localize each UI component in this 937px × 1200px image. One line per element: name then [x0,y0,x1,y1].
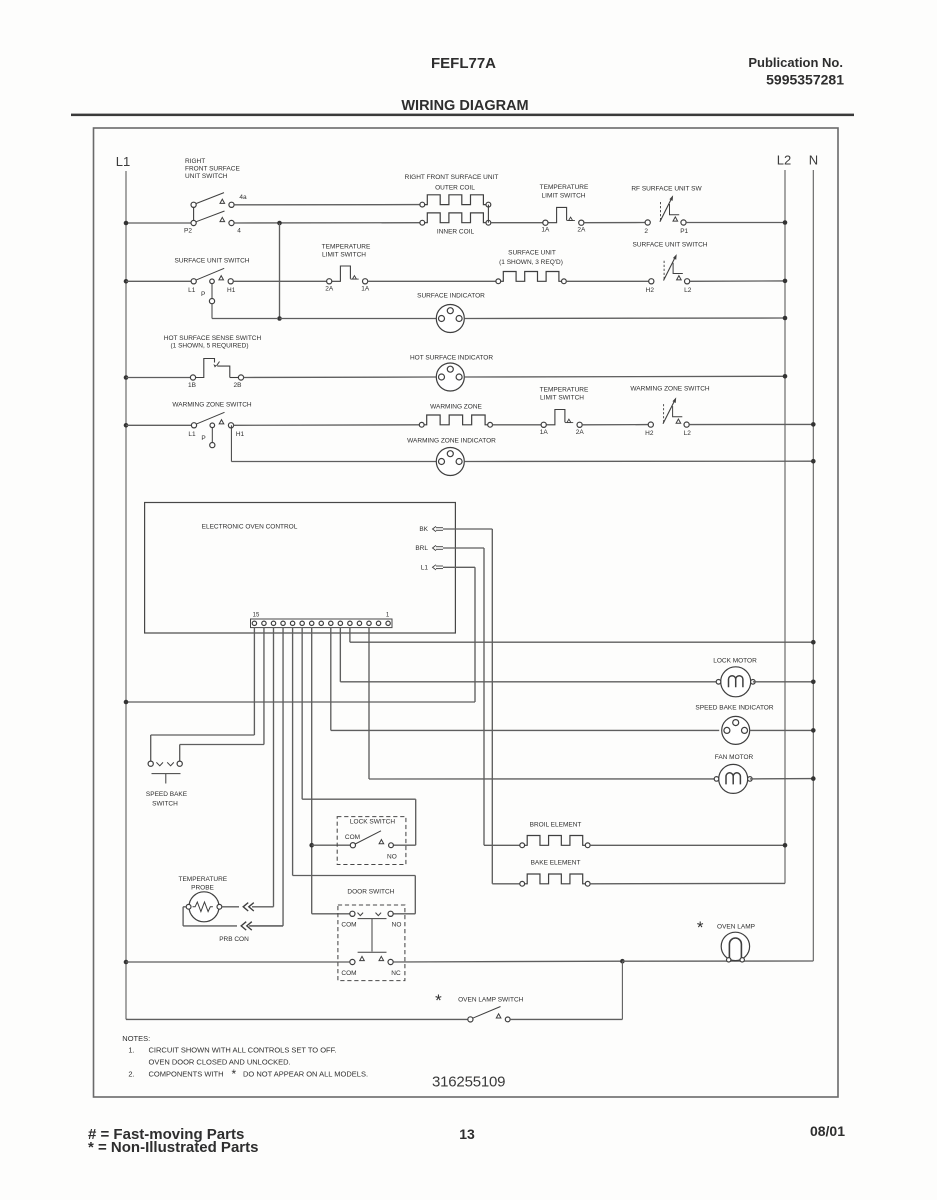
heater outer coil [420,202,425,207]
junction pilot branch [277,316,282,321]
svg-text:FRONT SURFACE: FRONT SURFACE [185,166,240,173]
svg-text:(1 SHOWN, 5 REQUIRED): (1 SHOWN, 5 REQUIRED) [170,343,248,350]
switch hot surface sense [190,375,195,380]
lamp oven lamp [721,932,749,960]
svg-text:NOTES:: NOTES: [122,1034,150,1043]
svg-text:1A: 1A [361,285,370,292]
wire fan motor to N [750,778,813,780]
svg-text:INNER COIL: INNER COIL [437,229,475,236]
wire indicator branch down [230,425,232,461]
svg-text:WIRING DIAGRAM: WIRING DIAGRAM [401,98,528,114]
wire branch to warming indicator [231,461,436,463]
junction pin5 N [811,640,816,645]
svg-text:COMPONENTS WITH: COMPONENTS WITH [149,1070,224,1079]
junction L1 row3 [124,375,129,380]
switch door lower COM-NC [350,959,355,964]
svg-text:316255109: 316255109 [432,1074,505,1091]
wire pilot to surface indicator [280,318,437,320]
wire 2B to hot surface indicator [243,376,436,379]
svg-text:LOCK SWITCH: LOCK SWITCH [350,819,395,826]
wire pin9 to door switch COM [311,628,313,914]
svg-text:DO NOT APPEAR ON ALL MODELS.: DO NOT APPEAR ON ALL MODELS. [243,1070,368,1079]
door switch actuator tee [358,918,387,920]
svg-text:BROIL ELEMENT: BROIL ELEMENT [530,822,582,829]
svg-text:SURFACE UNIT: SURFACE UNIT [508,250,556,257]
svg-text:LIMIT SWITCH: LIMIT SWITCH [322,252,366,259]
door switch enclosure [338,905,405,981]
svg-text:CIRCUIT SHOWN WITH ALL CONTROL: CIRCUIT SHOWN WITH ALL CONTROLS SET TO O… [149,1046,337,1055]
svg-text:SURFACE INDICATOR: SURFACE INDICATOR [417,293,485,300]
svg-text:NO: NO [392,922,402,929]
svg-text:PRB CON: PRB CON [219,936,249,943]
wire coil to H2 [566,280,649,282]
wire warming coil to 1A [493,424,542,426]
svg-text:SPEED BAKE: SPEED BAKE [146,791,188,798]
wire lamp branch down [621,961,623,1019]
wire eoc L1 to bus L1 [443,566,475,568]
svg-text:L1: L1 [116,154,130,169]
junction eoc L1 at bus [124,700,129,705]
svg-text:LIMIT SWITCH: LIMIT SWITCH [540,395,584,402]
svg-text:N: N [809,153,818,168]
svg-text:15: 15 [253,613,260,619]
svg-text:1.: 1. [128,1046,134,1055]
wire 1A to surface unit coil [368,280,496,282]
junction L1 row2 [124,279,129,284]
chevrons probe lead [243,903,248,911]
svg-text:OVEN LAMP: OVEN LAMP [717,924,755,931]
svg-text:P: P [201,435,205,442]
heater bake element [520,881,525,886]
lamp surface indicator [436,305,464,333]
wire probe right lead [222,906,239,908]
svg-text:SURFACE UNIT SWITCH: SURFACE UNIT SWITCH [175,258,250,265]
junction lock motor N [811,680,816,685]
svg-text:HOT SURFACE INDICATOR: HOT SURFACE INDICATOR [410,355,493,362]
svg-text:L2: L2 [684,287,692,294]
junction row4b N [811,459,816,464]
svg-text:H1: H1 [236,431,245,438]
switch warming zone (right) [648,422,653,427]
wire lamp switch row left [126,1018,468,1020]
wire 2A to RF switch [584,222,645,224]
svg-text:COM: COM [345,834,360,841]
svg-text:ELECTRONIC OVEN CONTROL: ELECTRONIC OVEN CONTROL [202,524,298,531]
wire L2term to L2 bus [690,280,785,282]
lamp warming zone indicator [436,448,464,476]
svg-text:RF SURFACE UNIT SW: RF SURFACE UNIT SW [631,186,702,193]
junction lamp row branch [620,959,625,964]
wire broil to L2 [590,844,785,846]
svg-text:BAKE ELEMENT: BAKE ELEMENT [531,860,581,867]
eoc terminal BRL arrow [436,546,443,548]
switch right front surface unit, upper pole 4a [191,202,196,207]
svg-text:* = Non-Illustrated Parts: * = Non-Illustrated Parts [88,1139,258,1156]
svg-text:TEMPERATURE: TEMPERATURE [322,244,371,251]
wire hot surface indicator to L2 [464,375,785,378]
wire bake to L2 end [590,882,785,884]
wire inner coil to 1A [491,222,543,224]
wire pilot branch down-right [211,304,213,319]
svg-text:TEMPERATURE: TEMPERATURE [540,184,589,191]
wire H1 to warming coil [233,424,419,427]
junction row1 L2 [783,220,788,225]
svg-text:4a: 4a [239,194,247,201]
svg-text:2B: 2B [234,382,242,389]
junction L1 door bottom [124,960,129,965]
svg-text:TEMPERATURE: TEMPERATURE [178,876,227,883]
wire pin10 to lock switch NO [301,628,303,800]
svg-text:COM: COM [341,970,356,977]
junction speed bake N [811,728,816,733]
svg-text:*: * [435,991,442,1010]
svg-text:1A: 1A [541,227,550,234]
svg-text:OUTER COIL: OUTER COIL [435,185,475,192]
resistor temperature probe [189,892,219,922]
wire row3 L1 to 1B [126,377,191,379]
wire speed bake indicator to N [750,729,814,731]
svg-text:L2: L2 [684,430,692,437]
svg-text:4: 4 [237,228,241,235]
wire pin14 to speed bake switch [263,628,265,745]
switch lock [350,843,355,848]
wire pin13 to probe [273,628,275,907]
temperature limit switch row4 [541,422,546,427]
svg-text:5995357281: 5995357281 [766,72,844,88]
eoc connector strip [251,619,393,628]
svg-text:P: P [201,291,205,298]
svg-text:COM: COM [341,922,356,929]
wire branch down to pilot row [279,223,281,319]
svg-text:(1 SHOWN, 3 REQ'D): (1 SHOWN, 3 REQ'D) [499,259,563,266]
wire pin3 to fan motor [368,628,370,779]
svg-text:2: 2 [644,228,648,235]
svg-text:LOCK MOTOR: LOCK MOTOR [713,658,757,665]
svg-text:WARMING ZONE SWITCH: WARMING ZONE SWITCH [630,386,710,393]
eoc terminal BK arrow [436,527,443,529]
wire 4a to outer coil [234,204,420,206]
wire 2A to warming switch [582,424,648,426]
svg-text:*: * [232,1067,237,1081]
diagram border frame [94,128,839,1097]
svg-text:SWITCH: SWITCH [152,801,178,808]
wire row4 L1 to switch [126,424,191,426]
wire pin15 to speed bake switch [253,628,255,735]
svg-text:L1: L1 [188,431,196,438]
wire lamp switch row right [510,1018,622,1020]
switch warming zone (left) [191,423,196,428]
temperature limit switch row1 [543,220,548,225]
svg-text:1B: 1B [188,382,196,389]
chevrons probe return [241,922,246,930]
junction row2 L2 [783,279,788,284]
switch oven lamp [468,1017,473,1022]
svg-text:*: * [697,918,704,937]
svg-text:L1: L1 [188,287,196,294]
heater inner coil [420,220,425,225]
svg-text:OVEN DOOR CLOSED AND UNLOCKED.: OVEN DOOR CLOSED AND UNLOCKED. [149,1058,291,1067]
bus L1 vertical wire [125,171,127,1019]
wire pin12 to probe return [282,628,284,926]
wire lock motor to N [753,681,813,683]
svg-text:H2: H2 [645,430,654,437]
svg-text:2A: 2A [325,285,334,292]
switch surface unit (left) [191,279,196,284]
svg-text:TEMPERATURE: TEMPERATURE [540,387,589,394]
wire warming indicator to N [464,460,813,462]
motor fan [719,764,748,793]
junction pin9 lock switch COM [309,843,314,848]
svg-text:DOOR SWITCH: DOOR SWITCH [347,889,394,896]
svg-text:2A: 2A [577,227,586,234]
electronic oven control box [145,503,456,634]
svg-text:Publication No.: Publication No. [748,55,843,70]
svg-text:H1: H1 [227,287,236,294]
wire BRL to broil element [443,547,484,549]
switch rf surface unit [645,220,650,225]
switch door upper COM-NO [350,911,355,916]
wire 4 to inner coil [234,222,420,224]
wire lamp row to N corner [622,960,813,962]
switch right front surface unit, lower pole P2-4 [191,220,196,225]
svg-text:SURFACE UNIT SWITCH: SURFACE UNIT SWITCH [633,242,708,249]
lamp speed bake indicator [722,716,750,744]
svg-text:WARMING ZONE INDICATOR: WARMING ZONE INDICATOR [407,438,496,445]
svg-text:HOT SURFACE SENSE SWITCH: HOT SURFACE SENSE SWITCH [164,335,262,342]
svg-text:LIMIT SWITCH: LIMIT SWITCH [542,193,586,200]
motor lock [721,667,751,697]
svg-text:OVEN LAMP SWITCH: OVEN LAMP SWITCH [458,997,524,1004]
svg-text:FAN MOTOR: FAN MOTOR [715,754,754,761]
wire H1 to 2A [233,280,326,282]
heater broil element [520,843,525,848]
svg-text:RIGHT: RIGHT [185,158,205,165]
svg-text:L1: L1 [421,565,429,572]
wire L1 to door lower COM [126,961,350,963]
heater surface unit coil [496,279,501,284]
wire pin5 to N bus [349,628,351,643]
svg-text:L2: L2 [777,153,791,168]
wire surface indicator to L2 [464,317,785,320]
svg-text:UNIT SWITCH: UNIT SWITCH [185,173,228,180]
wire probe left return [183,906,186,908]
wire BK to bake element [443,528,492,530]
junction fan motor N [811,776,816,781]
svg-text:H2: H2 [646,287,655,294]
switch speed bake [148,761,153,766]
switch surface unit (right) [649,279,654,284]
junction L1 row1 [124,221,129,226]
junction row4 N [811,422,816,427]
junction row1 indicator-branch [277,221,282,226]
bus L2 vertical wire [784,170,786,883]
wire coils right link [487,205,489,223]
svg-text:P2: P2 [184,228,192,235]
svg-text:2.: 2. [128,1070,134,1079]
junction row2b L2 [783,316,788,321]
eoc connector pins 15..1 [252,621,256,625]
wire pin6 to lock motor [339,628,341,682]
junction row3 L2 [783,374,788,379]
svg-text:13: 13 [459,1126,475,1142]
heading rule [71,114,854,117]
junction broil L2 [783,843,788,848]
svg-text:SPEED BAKE INDICATOR: SPEED BAKE INDICATOR [695,705,773,712]
wire door NC to lamp row [393,960,622,963]
wire P1 to L2 [686,222,785,224]
temperature limit switch row2 [327,279,332,284]
wire pin11 to door switch NO [292,628,294,876]
svg-text:BRL: BRL [415,545,428,552]
svg-text:1A: 1A [540,429,549,436]
svg-text:2A: 2A [576,429,585,436]
svg-text:BK: BK [419,526,428,533]
wire row1 L1 to switch [126,222,191,224]
svg-text:RIGHT FRONT SURFACE UNIT: RIGHT FRONT SURFACE UNIT [405,174,499,181]
wire row2 L1 to switch [126,280,191,282]
svg-text:WARMING ZONE SWITCH: WARMING ZONE SWITCH [172,402,252,409]
svg-text:NO: NO [387,854,397,861]
svg-text:P1: P1 [680,228,688,235]
svg-text:WARMING ZONE: WARMING ZONE [430,404,482,411]
eoc terminal L1 arrow [436,565,443,567]
heater warming zone coil [419,422,424,427]
wire lock COM stub [312,844,351,846]
wire warming L2term to N bus [689,423,813,425]
wire probe return to pin12 [249,925,283,927]
lock switch enclosure [337,817,406,865]
svg-text:08/01: 08/01 [810,1123,845,1139]
svg-text:PROBE: PROBE [191,885,214,892]
junction L1 row4 [124,423,129,428]
svg-text:FEFL77A: FEFL77A [431,55,496,72]
bus N vertical wire [812,170,814,961]
wire pin7 to speed bake indicator [330,628,332,731]
svg-text:NC: NC [391,970,401,977]
lamp hot surface indicator [436,363,464,391]
